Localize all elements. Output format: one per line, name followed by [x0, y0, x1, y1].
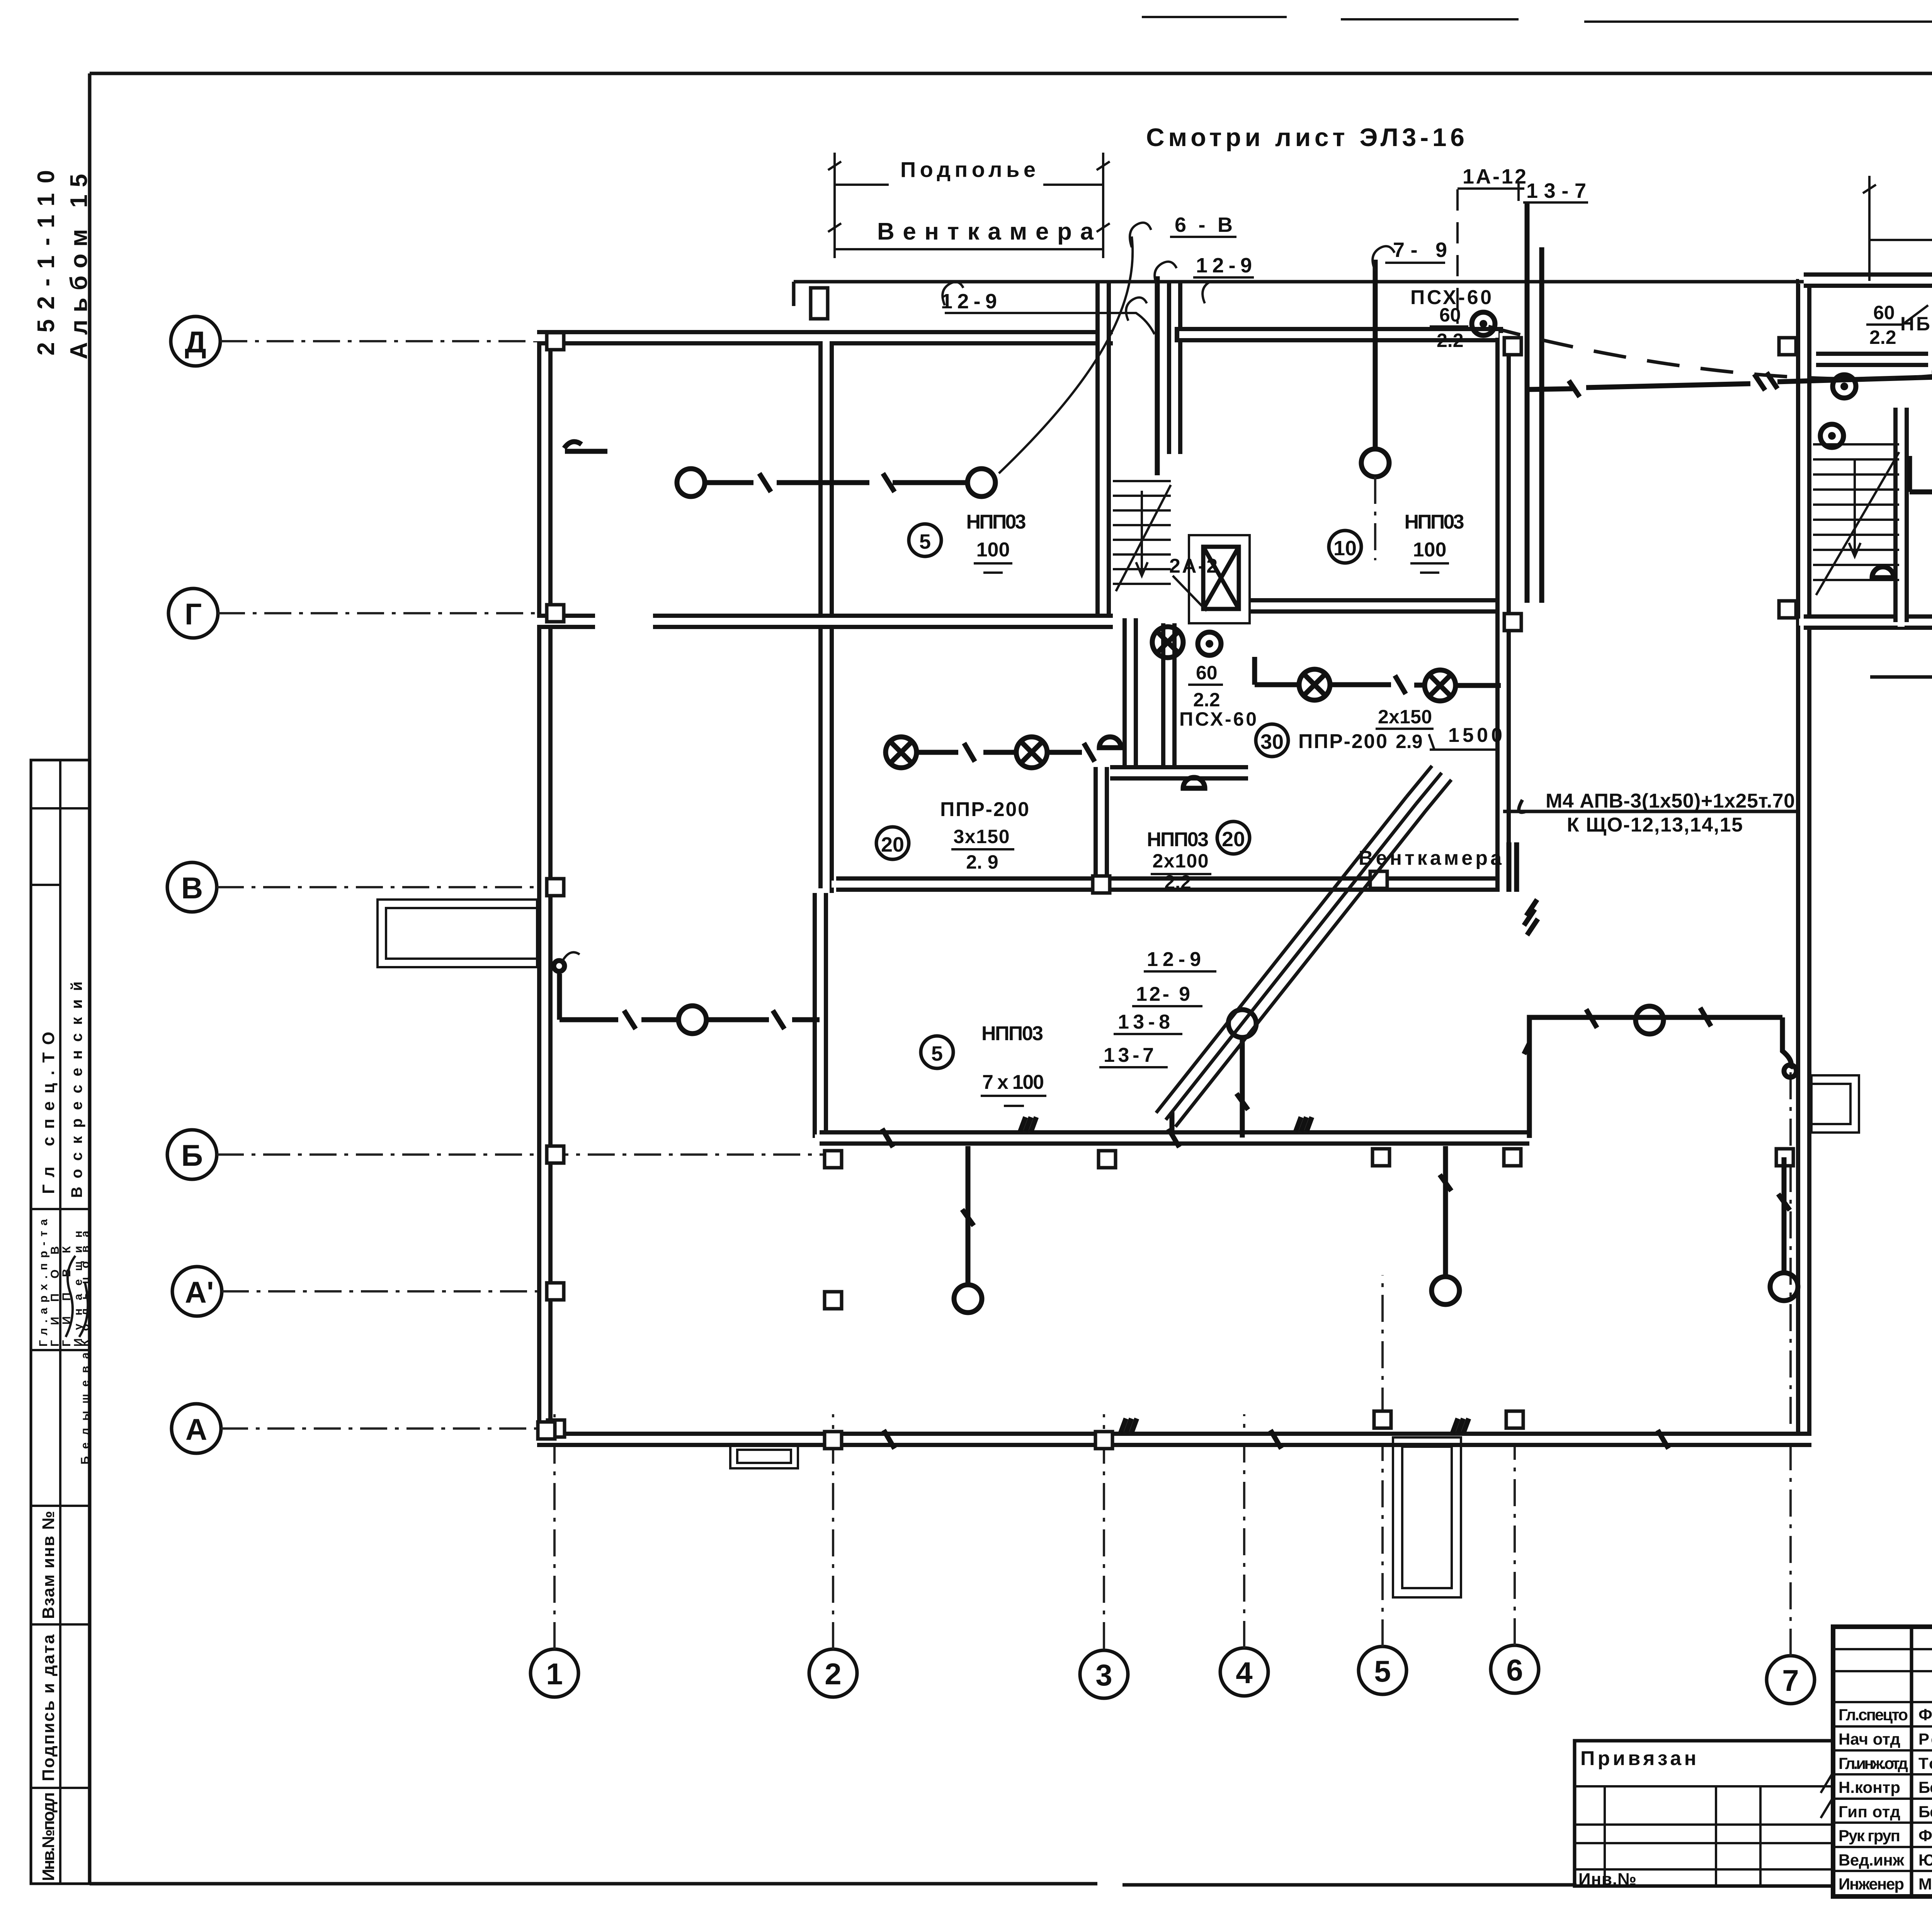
axis А [172, 1404, 221, 1453]
svg-text:Мартынчук: Мартынчук [1918, 1875, 1932, 1893]
12-9 riser top [1155, 276, 1160, 475]
svg-text:Филин: Филин [1918, 1706, 1932, 1724]
axis lines [220, 340, 603, 342]
svg-text:Торгашов: Торгашов [1918, 1754, 1932, 1772]
7-9 lamp [1361, 246, 1395, 560]
svg-text:Г: Г [185, 597, 202, 631]
svg-text:НПП03: НПП03 [966, 511, 1026, 533]
big dashed run [1488, 327, 1932, 379]
Т13-7 riser pair [1527, 203, 1542, 603]
stairs main shaft [1113, 481, 1171, 591]
svg-text:20: 20 [881, 833, 904, 856]
axis 1 [531, 1649, 578, 1697]
junction boxes ПСХ/ПСК [1472, 312, 1495, 335]
lower big room wires [1524, 900, 1796, 1138]
svg-text:НПП03: НПП03 [1147, 828, 1209, 851]
axis circles left [167, 316, 835, 1453]
svg-text:100: 100 [1413, 539, 1447, 561]
svg-text:7 х 100: 7 х 100 [982, 1071, 1044, 1094]
svg-text:Инженер: Инженер [1838, 1875, 1904, 1893]
svg-text:12- 9: 12- 9 [1136, 983, 1190, 1005]
axis 6 [1491, 1645, 1539, 1693]
svg-text:252-1-110: 252-1-110 [33, 170, 60, 355]
risers along wall x3890 lower [1509, 842, 1517, 892]
svg-text:Инв.№: Инв.№ [1578, 1870, 1636, 1889]
svg-text:4: 4 [1236, 1656, 1252, 1690]
left stamp table [31, 760, 92, 1884]
svg-text:Вед.инж: Вед.инж [1838, 1851, 1905, 1869]
svg-text:20: 20 [1222, 828, 1245, 851]
svg-text:Юдина: Юдина [1918, 1851, 1932, 1869]
svg-text:НПП03: НПП03 [981, 1022, 1043, 1045]
М4 leader line [1503, 800, 1797, 812]
svg-text:10: 10 [1333, 537, 1357, 560]
room 5 bottom [921, 1022, 1046, 1106]
svg-text:К ЩО-12,13,14,15: К ЩО-12,13,14,15 [1567, 814, 1743, 836]
svg-text:5: 5 [931, 1042, 943, 1065]
svg-text:6: 6 [1506, 1653, 1523, 1687]
svg-text:2х100: 2х100 [1153, 850, 1209, 872]
pit bottom [1393, 1437, 1461, 1597]
mid-left lamp wire [554, 952, 820, 1034]
svg-text:60: 60 [1196, 662, 1218, 684]
svg-text:3х150: 3х150 [954, 826, 1010, 847]
room 20 left [876, 798, 1029, 873]
svg-text:Белокурова: Белокурова [1918, 1803, 1932, 1821]
svg-text:2А-2: 2А-2 [1169, 555, 1218, 577]
umbrella vents [1099, 567, 1894, 788]
svg-text:А': А' [185, 1275, 214, 1309]
6-В leader curve [999, 236, 1133, 473]
ППР room lamp pair [886, 737, 1095, 768]
svg-text:13-8: 13-8 [1118, 1011, 1170, 1033]
annotation texts [828, 123, 1932, 1106]
svg-text:5: 5 [1374, 1654, 1391, 1688]
svg-text:Взам инв №: Взам инв № [39, 1511, 58, 1619]
svg-text:2. 9: 2. 9 [966, 851, 998, 873]
svg-text:Филатова: Филатова [1918, 1827, 1932, 1845]
axis Г [168, 588, 218, 638]
corridor wire to annex [1527, 377, 1932, 389]
привязан box [1575, 1741, 1833, 1889]
room5 lamp pair [677, 469, 995, 497]
svg-text:Альбом 15: Альбом 15 [66, 174, 92, 359]
walls double-line [378, 274, 1932, 1597]
svg-text:Гл.спецто: Гл.спецто [1838, 1706, 1908, 1724]
svg-text:В: В [181, 871, 203, 905]
svg-text:Белокурова: Белокурова [1918, 1778, 1932, 1796]
svg-text:Венткамера: Венткамера [1359, 847, 1502, 869]
slashes along bottom wall [884, 1418, 1668, 1449]
axis 4 [1220, 1648, 1268, 1696]
svg-text:Гл.инж.отд: Гл.инж.отд [1838, 1754, 1908, 1772]
room 20 mid [1147, 821, 1250, 893]
svg-text:2.9: 2.9 [1396, 731, 1423, 752]
svg-text:Инв.№подл: Инв.№подл [39, 1792, 58, 1881]
left margin album text [33, 170, 92, 359]
svg-text:60: 60 [1873, 302, 1895, 323]
svg-text:2.2: 2.2 [1193, 689, 1220, 711]
room 10 [1329, 511, 1464, 573]
svg-text:60: 60 [1439, 304, 1461, 326]
svg-text:Рук груп: Рук груп [1838, 1827, 1900, 1845]
svg-text:3: 3 [1095, 1658, 1112, 1692]
svg-text:1: 1 [546, 1657, 563, 1691]
annex lower outer line [1870, 675, 1932, 679]
svg-text:13-7: 13-7 [1104, 1044, 1154, 1066]
wires and lamps [554, 189, 1932, 1449]
svg-text:5: 5 [919, 530, 931, 553]
svg-text:6-В: 6-В [1175, 213, 1233, 236]
pit right wall [1811, 1075, 1859, 1133]
svg-text:2х150: 2х150 [1378, 706, 1432, 728]
upper strip line [794, 282, 1804, 306]
room10 lamp pair [1255, 657, 1501, 701]
top area hooks near stair [1126, 282, 1209, 321]
left top room small wire [564, 442, 607, 451]
svg-text:Привязан: Привязан [1580, 1747, 1696, 1770]
axis Б [167, 1130, 217, 1179]
room 5 top [909, 511, 1026, 573]
dim callout left [828, 153, 1110, 258]
svg-text:7: 7 [1782, 1663, 1799, 1697]
svg-text:М4 АПВ-3(1х50)+1х25т.70: М4 АПВ-3(1х50)+1х25т.70 [1546, 790, 1795, 812]
axis 2 [809, 1649, 857, 1697]
axis А' [172, 1267, 222, 1316]
12-9 left leader [945, 313, 1155, 334]
1А-12 dashed [1456, 189, 1459, 324]
axis 5 [1359, 1646, 1406, 1694]
signatures scribbles [1821, 1709, 1932, 1889]
columns [538, 288, 1932, 1449]
title block [1821, 1627, 1932, 1896]
svg-text:Нач отд: Нач отд [1838, 1730, 1900, 1748]
svg-text:30: 30 [1260, 730, 1284, 753]
room 30 [1256, 706, 1502, 757]
axis Д [171, 316, 220, 366]
axis circles bottom [531, 1066, 1815, 1704]
annex lamp pair [1910, 456, 1932, 507]
svg-text:НПП03: НПП03 [1405, 511, 1464, 533]
svg-text:2.2: 2.2 [1164, 871, 1191, 893]
dim callout right [1863, 162, 1932, 281]
svg-text:НБ005: НБ005 [1900, 313, 1932, 335]
small pit bottom-left [730, 1444, 798, 1468]
lift area lamps [1152, 627, 1183, 658]
svg-text:Подпись и дата: Подпись и дата [39, 1634, 58, 1781]
axis 3 [1080, 1650, 1128, 1698]
svg-text:Б: Б [181, 1138, 203, 1172]
svg-text:1А-12: 1А-12 [1463, 165, 1526, 188]
svg-text:Н.контр: Н.контр [1838, 1778, 1900, 1796]
svg-text:100: 100 [976, 539, 1010, 561]
slashes along Б wall [882, 1112, 1312, 1147]
axis В [167, 862, 217, 912]
svg-text:2: 2 [825, 1657, 841, 1691]
signature rows [1838, 1706, 1932, 1893]
svg-text:2.2: 2.2 [1869, 327, 1896, 348]
svg-text:Д: Д [185, 325, 206, 359]
door gap room5 [595, 611, 653, 633]
svg-text:2.2: 2.2 [1437, 330, 1464, 351]
svg-text:Гип отд: Гип отд [1838, 1803, 1900, 1821]
2А-2 leader [1173, 576, 1207, 611]
axis 7 [1767, 1656, 1815, 1704]
svg-text:Г И П О В: Г И П О В [49, 1246, 61, 1347]
pit left at axis В [378, 900, 537, 967]
stairs annex [1813, 444, 1899, 595]
diagonal feeder bundle [1156, 766, 1451, 1127]
svg-text:А: А [185, 1412, 207, 1446]
lift shaft [1189, 535, 1250, 623]
